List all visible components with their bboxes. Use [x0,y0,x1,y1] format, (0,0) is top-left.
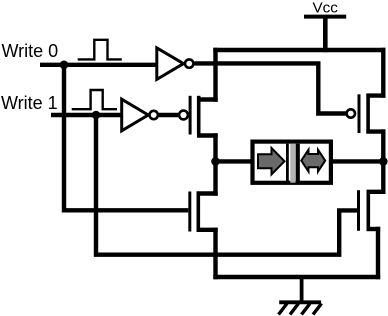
inverter U1 triangle [157,48,184,80]
top rail wire [213,48,385,52]
bottom ground rail wire [213,275,380,280]
PMOS M2 drain lead (bottom) [366,129,385,133]
ground hatch stroke 2 [290,304,299,315]
Vcc power symbol bar [304,15,346,19]
NMOS M4 channel bar [366,190,370,231]
node junction dot on Write 0 line [60,61,69,70]
wire Write 0 input line [40,63,158,67]
svg-text:Write 1: Write 1 [1,93,58,113]
NMOS M3 source lead (bottom) [197,228,218,232]
inverter U2 triangle [122,99,149,131]
wire MTJ to right node [331,159,383,163]
wire left node to MTJ [216,159,254,163]
PMOS M2 gate bubble [347,109,355,117]
node junction dot on Write 1 line [92,111,101,120]
PMOS M2 source lead (top) [366,93,385,97]
NMOS M4 gate bar [357,190,360,231]
MTJ fixed layer arrow (solid right arrow) [258,148,285,174]
MTJ free layer arrow (double-headed) [301,150,325,172]
ground symbol bar [279,300,321,304]
inverter U1 output bubble [185,59,193,67]
node junction dot left of MTJ [211,157,220,166]
svg-text:Write 0: Write 0 [2,41,59,61]
PMOS M1 gate bar [189,96,192,135]
left rail middle segment [213,133,217,195]
svg-text:Vcc: Vcc [313,0,339,17]
PMOS M1 source lead (top) [197,97,218,101]
NMOS M3 gate bar [188,192,191,232]
ground hatch stroke 3 [302,304,311,315]
NMOS M3 drain lead (top) [197,191,218,195]
MTJ element outer box [253,142,331,183]
wire from Write 0 node down and right to NMOS M3 gate [64,65,188,211]
right rail middle segment [381,129,385,194]
MTJ tunnel barrier left black edge [286,144,289,183]
PMOS M2 channel bar [366,94,370,134]
MTJ tunnel barrier (gray) [290,144,295,183]
PMOS M2 gate bar [358,94,361,133]
Vcc stem wire [323,17,328,53]
left rail top segment [213,48,217,102]
NMOS M4 source lead (bottom) [367,227,381,231]
NMOS M3 channel bar [197,192,201,232]
MTJ tunnel barrier right black edge [296,144,300,183]
PMOS M1 gate bubble [179,111,188,120]
ground hatch stroke 1 [279,304,288,315]
NMOS M4 drain lead (top) [367,190,386,194]
PMOS M1 channel bar [197,96,201,135]
node junction dot right of MTJ [379,157,388,166]
pulse symbol on Write 1 line [72,90,117,109]
wire U1 output to right then down to PMOS M2 gate bubble [195,63,346,113]
pulse symbol on Write 0 line [78,40,122,60]
ground hatch stroke 4 [313,304,322,315]
left rail bottom segment [213,228,217,280]
right rail top segment [381,48,385,98]
inverter U2 output bubble [150,111,158,119]
wire Write 1 input line [51,113,122,117]
PMOS M1 drain lead (bottom) [197,133,218,137]
wire from Write 1 node down, right, up to NMOS M4 gate [96,115,357,255]
ground stem wire [300,277,304,302]
right-bottom rail segment [376,227,380,279]
wire U2 output to PMOS M1 gate bubble [159,113,178,117]
